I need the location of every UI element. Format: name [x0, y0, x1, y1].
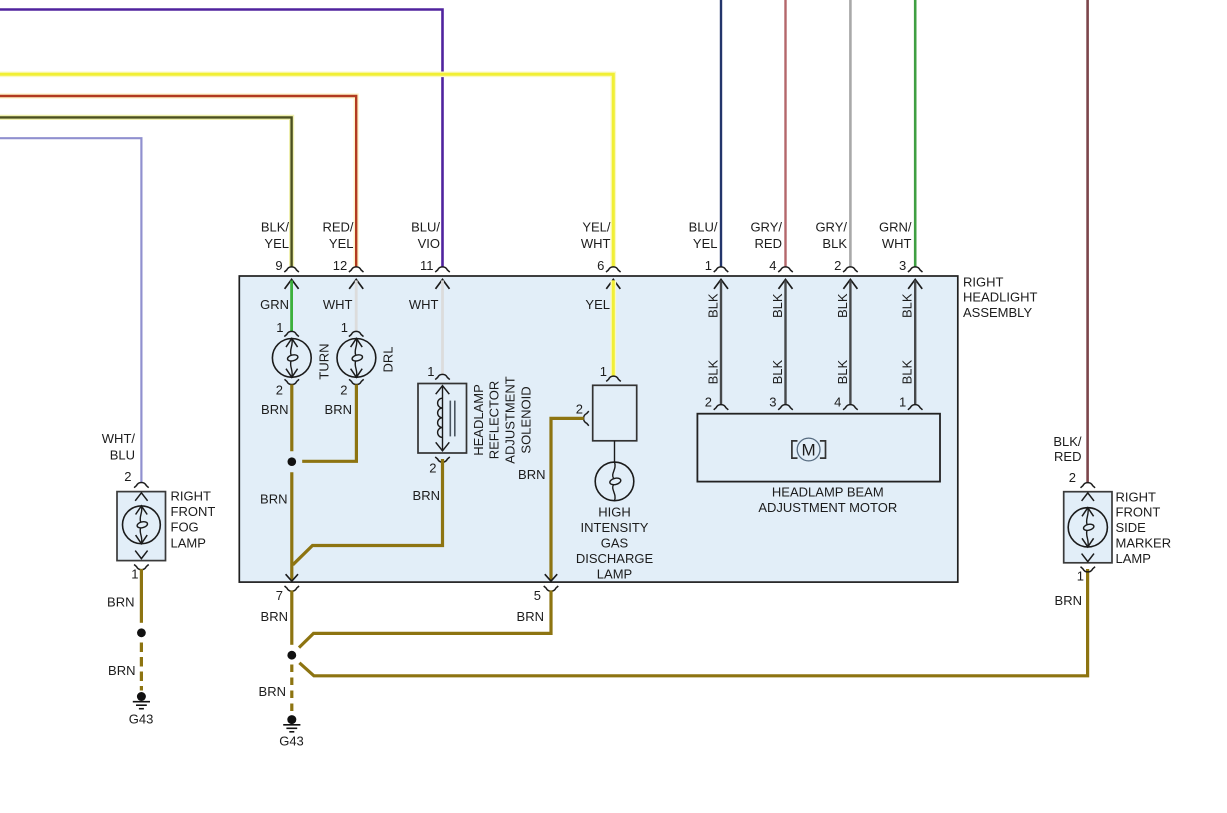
svg-text:HIGH: HIGH — [598, 504, 631, 519]
svg-text:1: 1 — [341, 320, 348, 335]
svg-text:2: 2 — [705, 394, 712, 409]
wire BLK (pin 3 to motor pin 1) — [914, 280, 916, 404]
svg-text:GRN: GRN — [260, 297, 289, 312]
ground G43 (left) — [133, 692, 150, 709]
pin 1 cap on main box top — [714, 267, 729, 272]
svg-text:BRN: BRN — [108, 663, 135, 678]
motor symbol M — [792, 441, 798, 458]
svg-text:REFLECTOR: REFLECTOR — [487, 381, 502, 460]
svg-text:BRN: BRN — [1055, 593, 1082, 608]
wire GRY/RED feed (vertical from top edge to pin 4) — [784, 0, 786, 267]
side marker pin 1 cap — [1081, 567, 1096, 572]
RIGHT FRONT FOG LAMP box — [117, 492, 166, 561]
svg-text:ADJUSTMENT MOTOR: ADJUSTMENT MOTOR — [758, 500, 897, 515]
fog lamp pin 1 cap — [134, 565, 149, 570]
svg-text:YEL/: YEL/ — [582, 220, 611, 235]
fog lamp pin 2 cap — [134, 482, 149, 487]
pin 3 cap on main box top — [908, 267, 923, 272]
svg-text:ASSEMBLY: ASSEMBLY — [963, 305, 1032, 320]
svg-text:WHT/: WHT/ — [102, 431, 136, 446]
svg-text:DRL: DRL — [381, 346, 396, 372]
svg-text:3: 3 — [769, 394, 776, 409]
svg-text:G43: G43 — [279, 733, 304, 748]
svg-text:M: M — [802, 441, 816, 460]
side marker top internal arrow — [1082, 493, 1094, 501]
svg-text:BRN: BRN — [261, 609, 288, 624]
wire BLK/YEL feed (horizontal then down to pin 9) — [0, 117, 292, 267]
svg-text:12: 12 — [333, 258, 347, 273]
fog lamp bottom internal arrow — [135, 551, 147, 559]
solenoid HEADLAMP REFLECTOR ADJUSTMENT SOLENOID box — [418, 384, 467, 454]
svg-text:3: 3 — [899, 258, 906, 273]
svg-text:6: 6 — [597, 258, 604, 273]
TURN lamp pin 1 cap — [284, 331, 299, 336]
svg-text:YEL: YEL — [693, 236, 718, 251]
svg-text:BRN: BRN — [260, 492, 287, 507]
svg-text:YEL: YEL — [264, 236, 289, 251]
junction B dot — [287, 651, 296, 660]
ground G43 (center) — [283, 715, 300, 732]
wire GRN/WHT feed (vertical from top edge to pin 3) — [914, 0, 917, 267]
motor pin 4 cap — [843, 405, 858, 410]
svg-text:BLU/: BLU/ — [411, 220, 440, 235]
svg-text:LAMP: LAMP — [171, 535, 206, 550]
svg-text:SIDE: SIDE — [1116, 520, 1147, 535]
svg-text:BLK: BLK — [822, 236, 847, 251]
fog lamp bulb — [122, 506, 160, 544]
svg-text:ADJUSTMENT: ADJUSTMENT — [503, 376, 518, 463]
svg-text:BLU: BLU — [110, 448, 135, 463]
pin 2 cap on main box top — [843, 267, 858, 272]
pin 7 exit arrow — [286, 574, 298, 581]
svg-text:MARKER: MARKER — [1116, 536, 1172, 551]
svg-text:YEL: YEL — [585, 297, 610, 312]
HID igniter box — [593, 385, 637, 441]
wire BRN fog lamp to junction C — [140, 569, 143, 623]
wire BRN solenoid pin2 to junction A branch — [293, 459, 443, 565]
svg-text:2: 2 — [576, 402, 583, 417]
svg-text:INTENSITY: INTENSITY — [581, 520, 649, 535]
svg-text:2: 2 — [340, 382, 347, 397]
svg-text:BLK: BLK — [770, 359, 785, 384]
wire BRN pin 7 to junction B — [290, 590, 293, 644]
svg-text:GRY/: GRY/ — [750, 220, 782, 235]
fog lamp top internal arrow — [135, 493, 147, 501]
wire BRN junction B to ground G43 (dashed) — [290, 665, 293, 714]
HID lamp connecting line — [614, 441, 616, 462]
svg-text:4: 4 — [769, 258, 776, 273]
junction A dot — [288, 457, 297, 466]
wire BLU/VIO feed (horizontal then down to pin 11) — [0, 10, 443, 268]
svg-text:DISCHARGE: DISCHARGE — [576, 551, 654, 566]
pin 11 entry arrow — [436, 279, 450, 289]
wire WHT (pin 12 to DRL lamp) — [355, 280, 358, 331]
svg-text:RIGHT: RIGHT — [1116, 489, 1157, 504]
solenoid core bars — [449, 401, 451, 437]
pin 5 cap — [544, 586, 559, 591]
svg-text:BRN: BRN — [325, 402, 352, 417]
side marker bulb — [1068, 508, 1107, 547]
wire BLK (pin 1 to motor pin 2) — [720, 280, 722, 404]
svg-text:BLK: BLK — [835, 359, 850, 384]
svg-text:FOG: FOG — [171, 520, 199, 535]
svg-text:1: 1 — [705, 258, 712, 273]
pin 7 cap — [285, 586, 300, 591]
wire RED/YEL feed (horizontal then down to pin 12) — [0, 96, 356, 267]
svg-text:BRN: BRN — [518, 467, 545, 482]
svg-text:4: 4 — [834, 394, 841, 409]
solenoid coil — [438, 398, 443, 437]
svg-text:WHT: WHT — [409, 297, 439, 312]
svg-text:1: 1 — [276, 320, 283, 335]
svg-text:2: 2 — [276, 382, 283, 397]
wire BRN junction A down to pin 7 exit — [290, 472, 293, 580]
svg-text:G43: G43 — [129, 711, 154, 726]
HIGH INTENSITY GAS DISCHARGE LAMP bulb — [595, 462, 634, 501]
svg-text:RIGHT: RIGHT — [963, 275, 1004, 290]
main box: RIGHT HEADLIGHT ASSEMBLY outline — [239, 276, 958, 582]
svg-text:BRN: BRN — [413, 488, 440, 503]
svg-text:GRY/: GRY/ — [815, 220, 847, 235]
wire WHT/BLU feed (horizontal then down to fog lamp pin 2) — [0, 138, 141, 482]
svg-text:BLK: BLK — [900, 359, 915, 384]
wire BLK/RED feed (vertical from top edge to side marker pin 2) — [1086, 0, 1089, 483]
svg-text:1: 1 — [427, 364, 434, 379]
solenoid pin 2 cap — [435, 457, 450, 462]
svg-text:TURN: TURN — [317, 343, 332, 379]
pin 11 cap on main box top — [435, 267, 450, 272]
svg-text:BRN: BRN — [261, 402, 288, 417]
svg-text:VIO: VIO — [418, 236, 440, 251]
svg-text:BLU/: BLU/ — [689, 220, 718, 235]
svg-text:2: 2 — [124, 469, 131, 484]
pin 1 entry arrow — [714, 279, 728, 289]
RIGHT FRONT SIDE MARKER LAMP box — [1064, 492, 1112, 563]
wire GRY/BLK feed (vertical from top edge to pin 2) — [849, 0, 852, 267]
svg-text:1: 1 — [899, 394, 906, 409]
junction C dot — [137, 628, 146, 637]
motor pin 2 cap — [714, 405, 729, 410]
pin 9 entry arrow — [285, 279, 299, 289]
svg-text:GAS: GAS — [601, 535, 629, 550]
svg-text:RED/: RED/ — [322, 220, 353, 235]
svg-text:FRONT: FRONT — [171, 504, 216, 519]
svg-text:BRN: BRN — [517, 609, 544, 624]
svg-text:BLK: BLK — [770, 293, 785, 318]
pin 4 cap on main box top — [778, 267, 793, 272]
svg-text:9: 9 — [275, 258, 282, 273]
pin 12 cap on main box top — [349, 267, 364, 272]
pin 9 cap on main box top — [284, 267, 299, 272]
TURN lamp bulb — [272, 339, 311, 378]
side marker pin 2 cap — [1081, 483, 1096, 488]
wire YEL (pin 6 to HID igniter) — [610, 280, 616, 376]
svg-text:HEADLIGHT: HEADLIGHT — [963, 290, 1037, 305]
wire BLU/YEL feed (vertical from top edge to pin 1) — [720, 0, 722, 267]
svg-text:BLK: BLK — [706, 359, 721, 384]
wire BRN pin 5 down-left to junction B — [299, 590, 551, 647]
DRL lamp bulb — [337, 339, 376, 378]
svg-text:GRN/: GRN/ — [879, 220, 912, 235]
HEADLAMP BEAM ADJUSTMENT MOTOR box — [697, 414, 940, 482]
svg-text:WHT: WHT — [581, 236, 611, 251]
svg-text:RIGHT: RIGHT — [171, 488, 212, 503]
pin 5 exit arrow — [545, 574, 557, 581]
DRL lamp pin 2 cap — [349, 379, 364, 384]
pin 6 cap on main box top — [606, 267, 621, 272]
solenoid pin 1 cap — [435, 374, 450, 379]
svg-text:RED: RED — [755, 236, 782, 251]
wire BRN DRL pin2 down and left to junction A — [302, 385, 356, 462]
DRL lamp pin 1 cap — [349, 331, 364, 336]
wire BRN junction C to ground (dashed) — [140, 643, 143, 691]
wire BLK (pin 2 to motor pin 4) — [849, 280, 851, 404]
svg-text:WHT: WHT — [882, 236, 912, 251]
svg-text:BLK/: BLK/ — [261, 220, 290, 235]
pin 6 entry arrow — [606, 279, 620, 289]
pin 12 entry arrow — [349, 279, 363, 289]
wire YEL/WHT feed (horizontal then down to pin 6) — [0, 74, 613, 267]
side marker bottom internal arrow — [1082, 554, 1094, 562]
svg-text:FRONT: FRONT — [1116, 505, 1161, 520]
wire GRN (pin 9 to TURN lamp) — [290, 280, 293, 331]
svg-text:WHT: WHT — [323, 297, 353, 312]
motor pin 3 cap — [778, 405, 793, 410]
svg-text:YEL: YEL — [329, 236, 354, 251]
pin 2 entry arrow — [843, 279, 857, 289]
svg-text:RED: RED — [1054, 449, 1081, 464]
svg-text:BLK: BLK — [900, 293, 915, 318]
HID igniter pin 1 cap — [606, 376, 621, 381]
wire BRN HID pin2 left then down to pin 5 exit — [551, 418, 584, 580]
svg-text:BRN: BRN — [259, 684, 286, 699]
pin 4 entry arrow — [779, 279, 793, 289]
svg-text:HEADLAMP: HEADLAMP — [471, 384, 486, 456]
svg-text:LAMP: LAMP — [597, 566, 632, 581]
svg-text:2: 2 — [1069, 470, 1076, 485]
svg-text:2: 2 — [429, 461, 436, 476]
svg-text:1: 1 — [1077, 569, 1084, 584]
svg-text:SOLENOID: SOLENOID — [519, 386, 534, 453]
svg-text:11: 11 — [420, 258, 434, 273]
wire WHT (pin 11 to solenoid) — [441, 280, 444, 374]
svg-text:HEADLAMP BEAM: HEADLAMP BEAM — [772, 485, 884, 500]
svg-text:BLK/: BLK/ — [1053, 434, 1082, 449]
svg-text:2: 2 — [834, 258, 841, 273]
svg-text:BLK: BLK — [706, 293, 721, 318]
HID igniter pin 2 cap — [584, 411, 589, 426]
svg-text:1: 1 — [131, 567, 138, 582]
svg-text:BRN: BRN — [107, 595, 134, 610]
wire BRN junction B to side marker (long run) — [299, 569, 1087, 676]
wire BRN TURN pin2 down to junction A — [290, 385, 293, 452]
TURN lamp pin 2 cap — [285, 379, 300, 384]
motor pin 1 cap — [908, 405, 923, 410]
svg-text:BLK: BLK — [835, 293, 850, 318]
svg-text:5: 5 — [534, 588, 541, 603]
pin 3 entry arrow — [908, 279, 922, 289]
solenoid internal line with arrows — [442, 386, 444, 451]
wire BLK (pin 4 to motor pin 3) — [784, 280, 786, 404]
svg-text:LAMP: LAMP — [1116, 551, 1151, 566]
svg-text:1: 1 — [600, 364, 607, 379]
svg-text:7: 7 — [276, 588, 283, 603]
